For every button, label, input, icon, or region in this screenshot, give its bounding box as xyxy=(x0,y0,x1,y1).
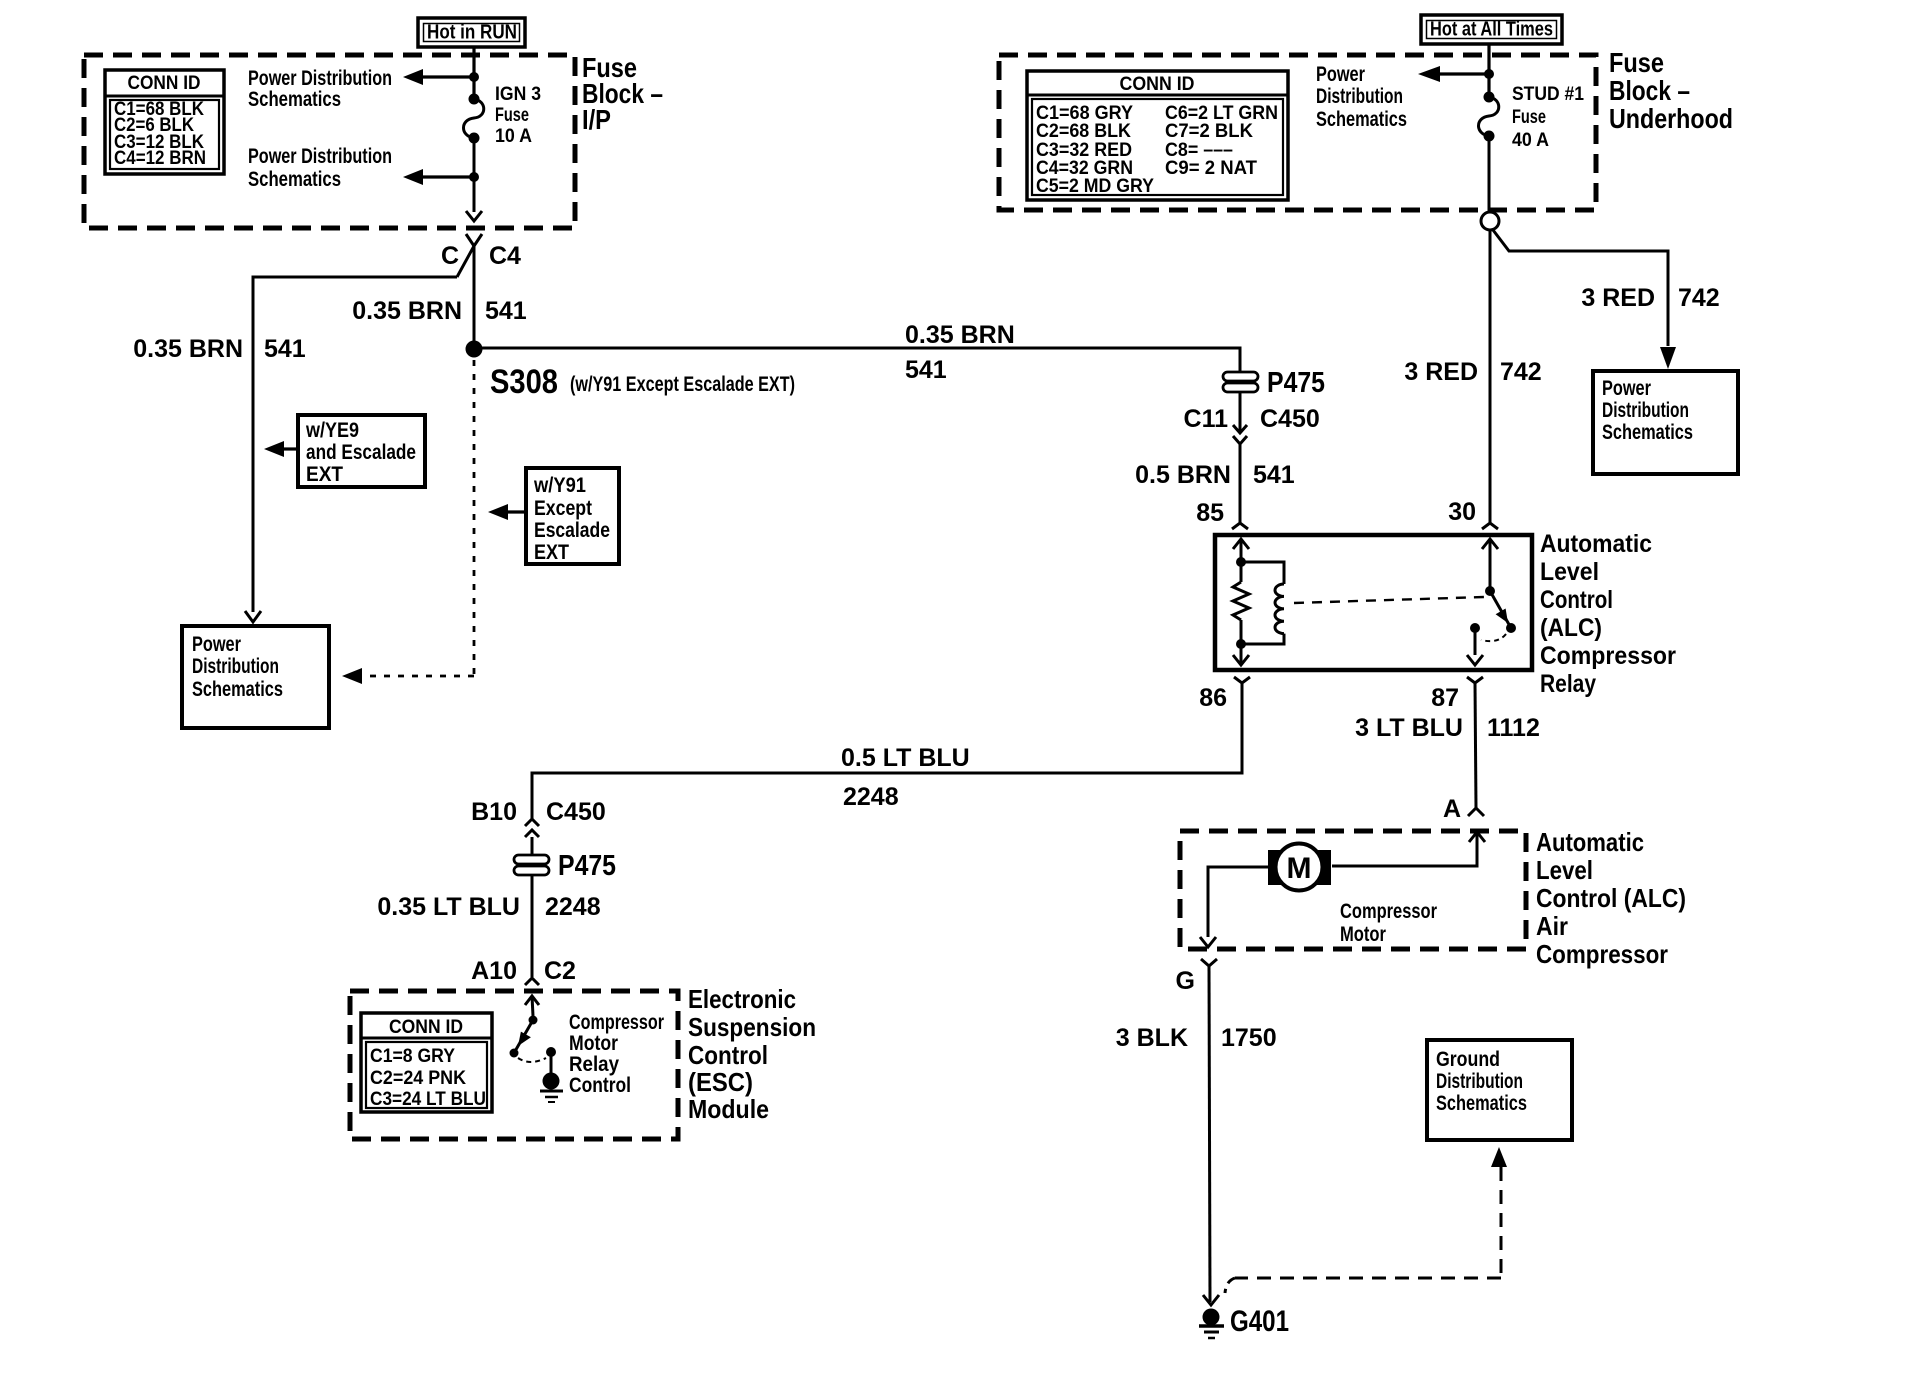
svg-text:C2=68 BLK: C2=68 BLK xyxy=(1036,121,1131,142)
svg-text:STUD #1: STUD #1 xyxy=(1512,84,1584,105)
svg-text:Fuse: Fuse xyxy=(1609,47,1664,78)
svg-text:Automatic: Automatic xyxy=(1536,827,1644,857)
svg-text:and Escalade: and Escalade xyxy=(306,441,416,464)
svg-text:Power Distribution: Power Distribution xyxy=(248,67,392,90)
svg-text:Schematics: Schematics xyxy=(248,168,341,191)
svg-text:Level: Level xyxy=(1540,558,1599,586)
svg-text:Control: Control xyxy=(1540,586,1613,614)
svg-text:2248: 2248 xyxy=(843,783,899,811)
svg-text:Schematics: Schematics xyxy=(1316,108,1407,131)
svg-text:Compressor: Compressor xyxy=(1536,939,1668,969)
svg-text:Schematics: Schematics xyxy=(1436,1092,1527,1115)
svg-text:(w/Y91 Except Escalade EXT): (w/Y91 Except Escalade EXT) xyxy=(570,373,795,396)
svg-text:Fuse: Fuse xyxy=(495,105,529,126)
svg-text:Underhood: Underhood xyxy=(1609,103,1733,134)
svg-text:3 LT BLU: 3 LT BLU xyxy=(1355,714,1463,742)
svg-text:Relay: Relay xyxy=(1540,670,1596,698)
svg-text:B10: B10 xyxy=(471,798,517,826)
svg-text:Control: Control xyxy=(569,1074,631,1097)
svg-text:0.35 LT BLU: 0.35 LT BLU xyxy=(377,893,520,921)
svg-text:0.35 BRN: 0.35 BRN xyxy=(905,321,1015,349)
svg-text:541: 541 xyxy=(264,335,306,363)
svg-text:Air: Air xyxy=(1536,911,1568,941)
svg-text:S308: S308 xyxy=(490,363,558,401)
svg-text:Motor: Motor xyxy=(569,1032,618,1055)
svg-text:Control (ALC): Control (ALC) xyxy=(1536,883,1686,913)
svg-text:M: M xyxy=(1287,852,1312,885)
svg-text:Distribution: Distribution xyxy=(1436,1070,1523,1093)
svg-text:C11: C11 xyxy=(1184,405,1229,433)
svg-text:Distribution: Distribution xyxy=(1316,85,1403,108)
svg-text:Escalade: Escalade xyxy=(534,519,610,542)
svg-text:Power Distribution: Power Distribution xyxy=(248,145,392,168)
svg-text:Hot at All Times: Hot at All Times xyxy=(1430,19,1553,41)
svg-text:Except: Except xyxy=(534,497,592,520)
svg-text:1112: 1112 xyxy=(1487,714,1540,742)
svg-text:C2: C2 xyxy=(544,957,576,985)
svg-text:Relay: Relay xyxy=(569,1053,619,1076)
svg-text:87: 87 xyxy=(1431,684,1459,712)
svg-text:0.35 BRN: 0.35 BRN xyxy=(133,335,243,363)
svg-text:30: 30 xyxy=(1448,498,1476,526)
svg-text:Compressor: Compressor xyxy=(1540,642,1676,670)
svg-text:3 RED: 3 RED xyxy=(1404,358,1478,386)
svg-text:P475: P475 xyxy=(1267,367,1325,399)
svg-text:Power: Power xyxy=(192,633,241,656)
svg-text:C: C xyxy=(441,242,459,270)
svg-text:G: G xyxy=(1176,967,1195,995)
svg-text:Schematics: Schematics xyxy=(1602,421,1693,444)
svg-text:w/Y91: w/Y91 xyxy=(533,474,586,497)
svg-text:(ALC): (ALC) xyxy=(1540,614,1602,642)
svg-text:Motor: Motor xyxy=(1340,923,1386,946)
svg-text:C450: C450 xyxy=(546,798,606,826)
svg-text:40 A: 40 A xyxy=(1512,130,1549,151)
svg-text:0.35 BRN: 0.35 BRN xyxy=(352,297,462,325)
svg-text:C7=2 BLK: C7=2 BLK xyxy=(1165,121,1253,142)
svg-text:CONN ID: CONN ID xyxy=(389,1017,463,1038)
svg-text:742: 742 xyxy=(1500,358,1542,386)
svg-text:Ground: Ground xyxy=(1436,1048,1500,1071)
svg-text:CONN ID: CONN ID xyxy=(1120,74,1195,95)
svg-text:85: 85 xyxy=(1196,499,1224,527)
svg-text:P475: P475 xyxy=(558,850,616,882)
svg-text:G401: G401 xyxy=(1230,1305,1289,1338)
svg-text:Distribution: Distribution xyxy=(1602,399,1689,422)
svg-text:Schematics: Schematics xyxy=(192,678,283,701)
svg-text:C3=24 LT BLU: C3=24 LT BLU xyxy=(370,1089,486,1110)
svg-text:EXT: EXT xyxy=(306,463,343,486)
svg-text:541: 541 xyxy=(485,297,527,325)
svg-text:86: 86 xyxy=(1199,684,1227,712)
svg-text:A: A xyxy=(1443,795,1461,823)
svg-text:C2=24 PNK: C2=24 PNK xyxy=(370,1068,466,1089)
svg-text:C4=12 BRN: C4=12 BRN xyxy=(114,148,206,169)
svg-text:2248: 2248 xyxy=(545,893,601,921)
svg-text:Control: Control xyxy=(688,1040,768,1070)
svg-text:C4: C4 xyxy=(489,242,521,270)
svg-text:C450: C450 xyxy=(1260,405,1320,433)
svg-text:C5=2 MD GRY: C5=2 MD GRY xyxy=(1036,176,1154,197)
svg-text:C1=8 GRY: C1=8 GRY xyxy=(370,1046,455,1067)
svg-text:742: 742 xyxy=(1678,284,1720,312)
svg-text:Level: Level xyxy=(1536,855,1593,885)
svg-text:Fuse: Fuse xyxy=(1512,107,1546,128)
svg-text:Block –: Block – xyxy=(1609,75,1690,106)
svg-text:EXT: EXT xyxy=(534,541,569,564)
svg-text:Module: Module xyxy=(688,1094,769,1124)
svg-text:C9= 2 NAT: C9= 2 NAT xyxy=(1165,158,1257,179)
svg-text:1750: 1750 xyxy=(1221,1024,1277,1052)
svg-text:Power: Power xyxy=(1602,377,1651,400)
svg-text:Schematics: Schematics xyxy=(248,88,341,111)
svg-text:IGN 3: IGN 3 xyxy=(495,84,541,105)
svg-text:I/P: I/P xyxy=(582,104,611,135)
svg-text:(ESC): (ESC) xyxy=(688,1067,753,1097)
svg-text:541: 541 xyxy=(905,356,947,384)
svg-text:Electronic: Electronic xyxy=(688,984,796,1014)
svg-text:0.5 LT BLU: 0.5 LT BLU xyxy=(841,744,970,772)
svg-text:541: 541 xyxy=(1253,461,1295,489)
svg-text:Compressor: Compressor xyxy=(569,1011,664,1034)
svg-text:3 BLK: 3 BLK xyxy=(1116,1024,1188,1052)
svg-text:Hot in RUN: Hot in RUN xyxy=(427,22,517,44)
svg-text:Distribution: Distribution xyxy=(192,655,279,678)
svg-text:Power: Power xyxy=(1316,63,1365,86)
svg-text:A10: A10 xyxy=(471,957,517,985)
svg-text:10 A: 10 A xyxy=(495,126,532,147)
svg-text:w/YE9: w/YE9 xyxy=(305,419,359,442)
svg-text:Automatic: Automatic xyxy=(1540,530,1652,558)
svg-text:Compressor: Compressor xyxy=(1340,900,1437,923)
svg-text:CONN ID: CONN ID xyxy=(128,73,201,94)
svg-text:0.5 BRN: 0.5 BRN xyxy=(1135,461,1231,489)
svg-text:Suspension: Suspension xyxy=(688,1012,816,1042)
svg-text:3 RED: 3 RED xyxy=(1581,284,1655,312)
